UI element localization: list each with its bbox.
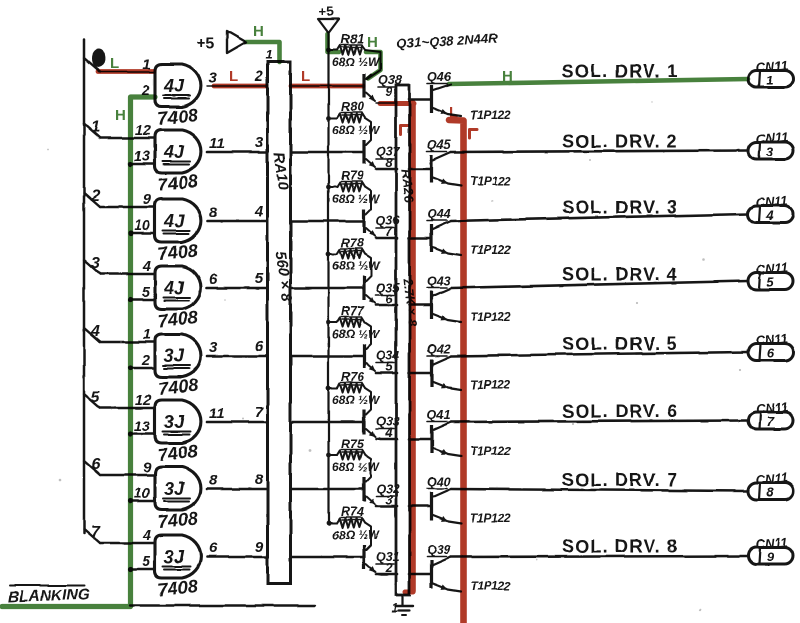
wire R76 to Q33 collector: [365, 388, 371, 415]
svg-text:T1P122: T1P122: [470, 444, 511, 458]
svg-text:7408: 7408: [157, 375, 199, 399]
node D1 input tap: [84, 124, 100, 138]
svg-text:Q42: Q42: [427, 342, 451, 356]
junction on blanking line row 3: [128, 230, 133, 235]
resistor R76 68ohm 1/2W: [329, 387, 338, 389]
wire Q38 emitter to RA26 pin 9: [376, 102, 397, 104]
node D5 input tap: [84, 394, 100, 408]
node D7 input tap: [84, 529, 100, 543]
svg-text:Q46: Q46: [427, 70, 452, 84]
wire blanking stub to gate pin 13: [130, 433, 155, 436]
node BLANKING (active low): [10, 585, 84, 587]
wire blanking stub to gate pin 5: [130, 299, 155, 302]
svg-text:SOL. DRV. 5: SOL. DRV. 5: [562, 334, 678, 354]
svg-text:2: 2: [254, 68, 264, 85]
connector CN11 pin 8: [748, 483, 793, 500]
wire Q36 emitter to RA26 pin 7: [376, 237, 397, 240]
transistor Q45 TIP122: [430, 155, 433, 183]
svg-text:1: 1: [91, 119, 100, 136]
wire R80 to Q37 collector: [365, 118, 371, 145]
wire SOL. DRV. 4 output: [451, 281, 748, 288]
svg-text:1: 1: [391, 600, 398, 615]
wire RA26 internal to ground (red vertical): [409, 103, 416, 591]
svg-text:3: 3: [91, 255, 100, 272]
svg-text:7408: 7408: [157, 105, 199, 129]
input bus (left vertical wire): [83, 40, 86, 534]
transistor Q36 2N44R: [291, 220, 363, 223]
svg-text:SOL. DRV. 3: SOL. DRV. 3: [562, 198, 678, 218]
svg-text:5: 5: [766, 275, 774, 290]
junction on blanking line row 6: [128, 431, 133, 436]
svg-text:6: 6: [209, 540, 218, 557]
svg-text:3J: 3J: [164, 479, 185, 499]
wire Q37 emitter to RA26 pin 8: [376, 168, 397, 171]
svg-text:8: 8: [209, 472, 218, 489]
resistor R79 68ohm 1/2W: [329, 186, 338, 188]
wire gate output row 1 to RA10: [207, 85, 267, 87]
wire gate output row 6 to RA10: [207, 421, 267, 424]
node D4 input tap: [84, 328, 100, 342]
wire gate output row 4 to RA10: [207, 287, 267, 290]
svg-text:8: 8: [385, 155, 393, 170]
wire gate output row 2 to RA10: [207, 151, 267, 154]
wire RA26 to Q39 base: [409, 573, 430, 576]
transistor Q37 2N44R: [291, 151, 363, 154]
svg-text:T1P122: T1P122: [470, 378, 511, 392]
wire D0 input (red L trace): [98, 69, 154, 74]
transistor Q43 TIP122: [430, 291, 433, 319]
svg-text:6: 6: [766, 346, 774, 361]
resistor R81 68ohm 1/2W: [329, 49, 338, 51]
svg-text:3: 3: [385, 492, 393, 507]
svg-text:13: 13: [134, 149, 150, 165]
svg-text:SOL. DRV. 8: SOL. DRV. 8: [562, 537, 678, 557]
svg-text:L: L: [301, 68, 310, 85]
svg-text:68Ω ½W: 68Ω ½W: [332, 393, 381, 407]
svg-text:+5: +5: [196, 35, 214, 52]
junction on blanking line row 2: [128, 161, 133, 166]
wire R81 to Q38 collector (green): [366, 52, 381, 79]
wire R75 to Q32 collector: [365, 455, 371, 482]
svg-text:H: H: [115, 107, 126, 124]
svg-text:4: 4: [90, 323, 100, 340]
svg-text:CN11: CN11: [755, 193, 788, 210]
wire SOL. DRV. 1 pen line: [449, 80, 748, 85]
svg-text:4: 4: [765, 208, 774, 223]
junction +5 rail / R79: [326, 185, 331, 190]
wire Q34 emitter to RA26 pin 5: [376, 372, 397, 375]
wire R78 to Q35 collector: [365, 254, 371, 281]
svg-text:CN11: CN11: [755, 260, 788, 277]
svg-text:T1P122: T1P122: [470, 310, 511, 324]
connector CN11 pin 5: [748, 273, 793, 290]
node D0 input tap: [84, 58, 100, 72]
wire SOL. DRV. 3 output: [451, 214, 748, 221]
label corner mark (red): [401, 126, 410, 135]
AND gate 3J (7408) row 5: [155, 334, 201, 377]
svg-text:9: 9: [766, 550, 774, 565]
svg-text:11: 11: [209, 135, 225, 152]
AND gate 4J (7408) row 2: [155, 130, 201, 173]
svg-text:9: 9: [385, 84, 393, 99]
wire gate output row 8 to RA10: [207, 556, 267, 559]
svg-text:4J: 4J: [163, 76, 185, 96]
svg-text:2: 2: [90, 188, 100, 205]
svg-text:5: 5: [91, 389, 101, 406]
svg-text:SOL. DRV. 2: SOL. DRV. 2: [562, 131, 678, 151]
svg-text:3: 3: [766, 144, 774, 159]
svg-text:CN11: CN11: [755, 470, 788, 487]
svg-text:6: 6: [255, 338, 264, 355]
wire R79 to Q36 collector: [365, 187, 371, 214]
transistor Q46 TIP122: [430, 85, 433, 113]
wire SOL. DRV. 7 output: [451, 489, 748, 491]
wire +5 to R81 (green): [328, 34, 340, 52]
junction +5 rail / R78: [326, 252, 331, 257]
svg-text:68Ω ½W: 68Ω ½W: [332, 460, 381, 474]
AND gate 3J (7408) row 8: [155, 535, 201, 578]
wire Q32 emitter to RA26 pin 3: [376, 505, 397, 508]
svg-text:3J: 3J: [164, 547, 185, 567]
svg-text:68Ω ½W: 68Ω ½W: [332, 123, 381, 137]
wire +5 rail vertical: [327, 33, 329, 521]
resistor array RA10 560x8: [268, 62, 291, 584]
transistor Q42 TIP122: [430, 359, 433, 387]
junction +5 rail / R81: [326, 48, 331, 53]
node D2 input tap: [84, 193, 100, 207]
wire blanking stub to gate pin 5: [130, 568, 155, 571]
wire blanking line (black continuation): [130, 604, 315, 606]
resistor R74 68ohm 1/2W: [329, 522, 338, 524]
svg-text:L: L: [449, 104, 458, 121]
svg-text:L: L: [229, 68, 238, 85]
wire blanking vertical (green H trace): [2, 97, 155, 607]
transistor Q38 2N44R: [291, 85, 363, 87]
svg-text:7408: 7408: [157, 441, 199, 465]
transistor Q35 2N44R: [291, 287, 363, 290]
svg-text:2: 2: [384, 560, 393, 575]
svg-text:L: L: [110, 55, 119, 72]
svg-text:2: 2: [141, 353, 150, 369]
svg-text:1: 1: [766, 73, 773, 88]
wire SOL. DRV. 6 output: [451, 421, 748, 423]
svg-text:SOL. DRV. 6: SOL. DRV. 6: [562, 401, 678, 421]
svg-text:6: 6: [385, 291, 393, 306]
svg-text:7408: 7408: [157, 171, 199, 195]
svg-text:4: 4: [142, 259, 151, 275]
connector CN11 pin 7: [748, 412, 793, 429]
wire RA26 to Q40 base: [409, 505, 430, 508]
junction +5 rail / R75: [326, 453, 331, 458]
svg-text:Q44: Q44: [427, 207, 451, 221]
junction +5 rail / R80: [326, 116, 331, 121]
transistor Q32 2N44R: [291, 488, 363, 491]
svg-text:12: 12: [135, 393, 151, 409]
resistor R78 68ohm 1/2W: [329, 253, 338, 255]
svg-text:BLANKING: BLANKING: [8, 586, 90, 606]
svg-text:6: 6: [209, 271, 218, 288]
connector CN11 pin 9: [748, 548, 793, 565]
svg-text:7408: 7408: [157, 576, 199, 600]
wire Q33 emitter to RA26 pin 4: [376, 438, 397, 441]
wire gate output row 5 to RA10: [207, 355, 267, 358]
svg-text:1: 1: [265, 47, 272, 62]
svg-text:T1P122: T1P122: [470, 108, 511, 122]
svg-text:Q39: Q39: [427, 543, 451, 557]
svg-text:6: 6: [91, 456, 100, 473]
svg-text:7: 7: [766, 414, 774, 429]
svg-text:11: 11: [209, 405, 225, 422]
wire RA26 to Q42 base: [409, 372, 430, 375]
svg-text:4J: 4J: [163, 142, 185, 162]
svg-text:9: 9: [143, 460, 151, 476]
svg-text:T1P122: T1P122: [470, 511, 511, 525]
wire RA26 to Q43 base: [409, 304, 430, 307]
transistor Q44 TIP122: [430, 224, 433, 252]
ground: [395, 605, 413, 607]
svg-text:T1P122: T1P122: [470, 174, 511, 188]
transistor Q39 TIP122: [430, 560, 433, 588]
svg-text:Q41: Q41: [427, 408, 451, 422]
svg-text:7408: 7408: [157, 508, 199, 532]
connector CN11 pin 1: [748, 71, 793, 88]
svg-text:10: 10: [134, 486, 150, 502]
wire blanking stub to gate pin 10: [130, 500, 155, 503]
svg-text:4: 4: [384, 425, 393, 440]
svg-text:5: 5: [255, 270, 264, 287]
svg-text:Q40: Q40: [427, 475, 451, 489]
svg-text:7: 7: [385, 224, 393, 239]
junction +5 rail / R74: [326, 521, 331, 526]
node D3 input tap: [84, 260, 100, 274]
svg-text:12: 12: [135, 123, 151, 139]
svg-text:T1P122: T1P122: [470, 579, 511, 593]
svg-text:68Ω ½W: 68Ω ½W: [332, 327, 381, 341]
svg-text:SOL. DRV. 4: SOL. DRV. 4: [562, 265, 678, 285]
svg-text:CN11: CN11: [755, 331, 788, 348]
wire RA26 pin 1 to ground: [401, 595, 403, 605]
resistor R77 68ohm 1/2W: [329, 321, 338, 323]
svg-text:4: 4: [254, 203, 264, 220]
svg-text:68Ω ½W: 68Ω ½W: [332, 55, 381, 69]
svg-text:3: 3: [209, 339, 218, 356]
svg-text:13: 13: [134, 419, 150, 435]
svg-text:T1P122: T1P122: [470, 243, 511, 257]
resistor array RA26 2.7K x 8: [396, 85, 410, 595]
wire RA26 to Q45 base: [409, 168, 430, 171]
transistor Q41 TIP122: [430, 425, 433, 453]
wire RA10 to Q38 base (red L): [291, 84, 363, 89]
AND gate 3J (7408) row 7: [155, 467, 201, 510]
wire SOL. DRV. 5 output: [451, 352, 748, 356]
svg-text:H: H: [367, 34, 378, 51]
svg-text:4J: 4J: [163, 278, 185, 298]
svg-text:CN11: CN11: [755, 535, 788, 552]
wire blanking stub to gate pin 2: [130, 367, 155, 370]
wire RA26 to Q44 base: [409, 237, 430, 240]
wire SOL. DRV. 8 output: [451, 556, 748, 557]
svg-text:CN11: CN11: [755, 58, 788, 75]
wire Q38 emitter to RA26 (red): [380, 101, 414, 106]
svg-text:8: 8: [766, 485, 774, 500]
svg-text:1: 1: [143, 327, 151, 343]
svg-text:7: 7: [255, 404, 264, 421]
svg-text:8: 8: [255, 471, 264, 488]
svg-text:5: 5: [142, 554, 151, 570]
connector CN11 pin 6: [748, 344, 793, 361]
wire R74 to Q31 collector: [365, 523, 371, 550]
junction on blanking line row 4: [128, 297, 133, 302]
svg-text:CN11: CN11: [755, 129, 788, 146]
junction +5 rail / R77: [326, 320, 331, 325]
wire R81 to Q38 collector: [365, 50, 381, 79]
svg-text:CN11: CN11: [755, 399, 788, 416]
wire blanking stub to gate pin 10: [130, 232, 155, 235]
scan speckles: [491, 200, 493, 202]
junction +5 rail / R76: [326, 386, 331, 391]
svg-text:7408: 7408: [157, 307, 199, 331]
svg-text:+5: +5: [319, 4, 334, 19]
resistor R80 68ohm 1/2W: [329, 117, 338, 119]
wire RA26 to Q46 base: [409, 98, 430, 101]
svg-text:68Ω ½W: 68Ω ½W: [332, 259, 381, 273]
svg-text:8: 8: [209, 204, 218, 221]
svg-text:H: H: [253, 23, 264, 40]
wire Q31 emitter to RA26 pin 2: [376, 573, 397, 576]
connector CN11 pin 3: [748, 142, 793, 159]
wire Q35 emitter to RA26 pin 6: [376, 304, 397, 307]
wire SOL. DRV. 1 (green H trace): [449, 79, 748, 84]
svg-text:3J: 3J: [164, 412, 185, 432]
node D6 input tap: [84, 461, 100, 475]
svg-text:9: 9: [143, 192, 151, 208]
wire RA26 to Q41 base: [409, 438, 430, 441]
svg-text:3J: 3J: [164, 346, 185, 366]
wire gate1 output to RA10 (red L): [214, 84, 266, 89]
transistor Q40 TIP122: [430, 492, 433, 520]
svg-text:3: 3: [255, 134, 264, 151]
transistor Q34 2N44R: [291, 355, 363, 358]
svg-text:5: 5: [385, 359, 393, 374]
svg-text:9: 9: [255, 539, 264, 556]
junction on blanking line row 7: [128, 498, 133, 503]
label input bit 0: [93, 50, 104, 66]
svg-text:10: 10: [134, 218, 150, 234]
AND gate 4J (7408) row 1: [155, 64, 201, 107]
wire blanking stub to gate pin 13: [130, 163, 155, 166]
wire Q46 emitter return (red vertical): [449, 120, 464, 623]
transistor Q33 2N44R: [291, 421, 363, 424]
wire SOL. DRV. 2 output: [451, 151, 748, 153]
wire +5 buffer to RA10 pin1 (green H trace): [246, 42, 280, 62]
connector CN11 pin 4: [748, 206, 793, 223]
svg-text:Q43: Q43: [427, 274, 451, 288]
svg-text:68Ω ½W: 68Ω ½W: [332, 528, 381, 542]
AND gate 3J (7408) row 6: [155, 400, 201, 443]
svg-text:3: 3: [209, 69, 218, 86]
wire gate output row 3 to RA10: [207, 220, 267, 223]
wire R77 to Q34 collector: [365, 322, 371, 349]
svg-text:H: H: [502, 68, 513, 85]
AND gate 4J (7408) row 4: [155, 266, 201, 309]
svg-text:7408: 7408: [157, 240, 199, 264]
junction on blanking line row 5: [128, 365, 133, 370]
transistor Q31 2N44R: [291, 556, 363, 559]
svg-text:5: 5: [142, 285, 151, 301]
svg-text:4: 4: [142, 528, 151, 544]
svg-text:SOL. DRV. 7: SOL. DRV. 7: [562, 470, 678, 490]
power +5 supply triangle: [318, 19, 339, 33]
svg-text:68Ω ½W: 68Ω ½W: [332, 192, 381, 206]
power +5 buffer symbol: [227, 31, 246, 53]
resistor R75 68ohm 1/2W: [329, 454, 338, 456]
svg-text:Q45: Q45: [427, 138, 452, 152]
svg-text:7: 7: [91, 524, 101, 541]
svg-text:4J: 4J: [163, 211, 185, 231]
AND gate 4J (7408) row 3: [155, 199, 201, 242]
junction on blanking line row 8: [128, 566, 133, 571]
wire gate output row 7 to RA10: [207, 488, 267, 491]
